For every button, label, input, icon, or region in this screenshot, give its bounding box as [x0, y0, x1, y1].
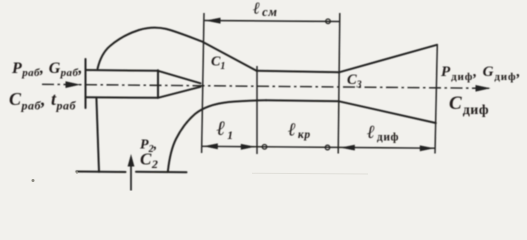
dim l_kr left circle [262, 145, 267, 150]
nozzle cone base vertical [157, 70, 159, 98]
suction arrow P2 C2 [128, 154, 135, 191]
dim l_cm right circle [326, 19, 331, 24]
scan speck [32, 179, 35, 182]
nozzle cone bottom [158, 87, 201, 98]
suction bottom line right [136, 171, 187, 173]
dim l_kr right circle [325, 145, 330, 150]
scan speck [76, 171, 78, 173]
throat entry section vertical [256, 66, 258, 154]
nozzle cone top [158, 71, 201, 84]
suction bottom line left [77, 171, 126, 174]
dim l1 right arrowhead [241, 144, 256, 150]
dim l_dif left arrowhead [340, 145, 355, 151]
suction chamber left wall [96, 98, 99, 172]
exit flow arrowhead right [476, 85, 491, 92]
diffuser top wall [339, 45, 437, 73]
section line C3 vertical [338, 13, 340, 154]
flange vertical left [85, 59, 87, 108]
suction inlet top arc [98, 28, 257, 71]
nozzle pipe top wall [86, 69, 159, 72]
working flow arrowhead left [66, 81, 81, 88]
diffuser exit vertical [435, 44, 437, 154]
nozzle pipe bottom wall [86, 96, 159, 99]
dim line l_cm top [205, 21, 340, 22]
diffuser bottom wall [339, 101, 436, 123]
dim l1 left arrowhead [203, 143, 218, 149]
dim line bottom [202, 146, 436, 148]
centerline dash-dot [42, 84, 489, 88]
dim l_cm left arrowhead [206, 18, 221, 24]
suction lower contour curve [168, 100, 266, 171]
section line C1 vertical [202, 13, 204, 153]
mixing throat top wall [257, 71, 340, 73]
dim l_dif right arrowhead [420, 145, 435, 151]
mixing throat bottom wall [266, 100, 339, 101]
faint scan bleed line [252, 172, 368, 175]
